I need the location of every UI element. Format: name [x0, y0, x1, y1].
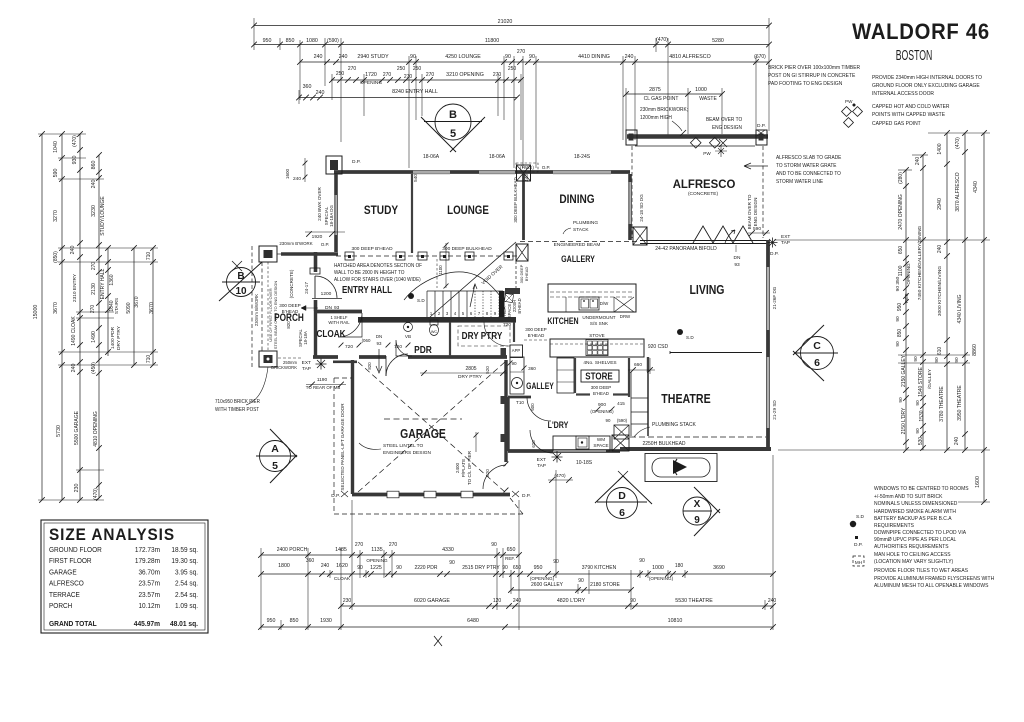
svg-text:ALLOW FOR STAIRS OVER (1040 WI: ALLOW FOR STAIRS OVER (1040 WIDE) — [334, 277, 421, 283]
svg-text:610: 610 — [937, 347, 943, 356]
svg-text:6020 GARAGE: 6020 GARAGE — [414, 598, 450, 604]
bottom extension lines — [260, 548, 262, 630]
svg-text:2470 OPENING: 2470 OPENING — [898, 194, 904, 230]
svg-text:WM: WM — [597, 437, 605, 442]
svg-text:4330: 4330 — [442, 547, 454, 553]
svg-text:850: 850 — [286, 38, 295, 44]
svg-text:240: 240 — [321, 563, 330, 569]
svg-text:270: 270 — [517, 49, 526, 55]
svg-text:(OPENING): (OPENING) — [530, 576, 555, 581]
svg-text:CL GAS POINT: CL GAS POINT — [644, 96, 679, 102]
svg-text:SIZE ANALYSIS: SIZE ANALYSIS — [49, 527, 175, 545]
svg-text:5280: 5280 — [712, 38, 724, 44]
svg-text:DINING: DINING — [559, 193, 594, 206]
svg-text:18-06A: 18-06A — [423, 154, 440, 160]
svg-text:1000: 1000 — [652, 565, 664, 571]
svg-text:D.P.: D.P. — [757, 123, 766, 129]
svg-text:6: 6 — [619, 507, 625, 519]
svg-text:950: 950 — [897, 303, 903, 312]
marker D6 — [607, 488, 638, 519]
garage top wall — [313, 355, 507, 359]
svg-text:D: D — [618, 490, 626, 502]
svg-text:STOVE: STOVE — [589, 333, 605, 338]
ldry wall west — [506, 397, 509, 451]
svg-text:21020: 21020 — [498, 19, 513, 25]
svg-text:WALDORF 46: WALDORF 46 — [852, 20, 990, 44]
svg-text:240: 240 — [91, 180, 97, 189]
svg-text:4340 LIVING: 4340 LIVING — [957, 294, 963, 323]
svg-text:90: 90 — [606, 418, 611, 423]
theatre west cabinet column — [647, 357, 649, 372]
svg-text:S.D: S.D — [417, 298, 425, 303]
svg-text:90: 90 — [529, 54, 535, 60]
svg-text:6: 6 — [814, 357, 820, 369]
svg-text:720: 720 — [503, 322, 511, 328]
svg-text:CLOAK: CLOAK — [334, 576, 351, 582]
smoke detector living — [677, 329, 683, 335]
svg-text:24-17: 24-17 — [304, 282, 309, 294]
kitchen island bench — [548, 284, 636, 312]
svg-text:ENGINEERS DESIGN: ENGINEERS DESIGN — [383, 450, 432, 456]
svg-text:240: 240 — [625, 54, 634, 60]
svg-text:11800: 11800 — [485, 38, 499, 44]
svg-text:DOWNPIPE CONNECTED TO LPOD VIA: DOWNPIPE CONNECTED TO LPOD VIA — [874, 530, 967, 536]
hall-garage door arc — [385, 356, 387, 376]
stairs — [426, 291, 428, 317]
svg-text:STUDY/LOUNGE: STUDY/LOUNGE — [100, 196, 106, 236]
svg-text:3670: 3670 — [149, 302, 155, 314]
svg-text:300 DEEP B'HEAD: 300 DEEP B'HEAD — [351, 246, 393, 252]
svg-text:240: 240 — [314, 54, 323, 60]
svg-text:ENTRY HALL: ENTRY HALL — [100, 268, 106, 299]
svg-text:TERRACE: TERRACE — [49, 592, 80, 599]
svg-text:18-18A DG: 18-18A DG — [329, 205, 334, 227]
svg-text:90: 90 — [511, 361, 517, 366]
svg-text:18.59 sq.: 18.59 sq. — [171, 547, 198, 554]
svg-text:90: 90 — [915, 400, 921, 406]
kitchen sink — [579, 297, 599, 310]
svg-text:LOUNGE: LOUNGE — [447, 204, 489, 217]
store cupboard crossed — [614, 425, 629, 439]
svg-text:D.P.: D.P. — [854, 542, 863, 548]
svg-text:240: 240 — [339, 54, 348, 60]
svg-text:590: 590 — [53, 169, 59, 178]
svg-text:2515 DRY PTRY: 2515 DRY PTRY — [462, 565, 500, 571]
svg-text:DN: DN — [376, 334, 382, 339]
svg-text:650: 650 — [513, 565, 522, 571]
svg-text:D/W: D/W — [600, 301, 609, 306]
svg-text:5730: 5730 — [56, 425, 62, 437]
svg-text:2180 STORE: 2180 STORE — [590, 582, 620, 588]
svg-text:820: 820 — [485, 469, 490, 477]
svg-text:T10: T10 — [516, 400, 524, 405]
svg-text:720: 720 — [394, 344, 402, 350]
svg-text:230mm B'WORK: 230mm B'WORK — [279, 241, 312, 246]
svg-text:8240 ENTRY HALL: 8240 ENTRY HALL — [392, 89, 438, 95]
theatre bulkhead dashed — [630, 436, 766, 438]
svg-text:WASTE: WASTE — [699, 96, 717, 102]
svg-text:ALUMINUM MESH TO ALL OPENABLE: ALUMINUM MESH TO ALL OPENABLE WINDOWS — [874, 583, 989, 589]
svg-text:3670: 3670 — [53, 302, 59, 314]
svg-text:TAP: TAP — [537, 463, 546, 469]
svg-text:415: 415 — [617, 401, 625, 406]
svg-text:360: 360 — [303, 84, 312, 90]
svg-text:850: 850 — [290, 618, 299, 624]
svg-text:(590): (590) — [617, 418, 628, 423]
svg-text:300 DEEP: 300 DEEP — [279, 303, 300, 308]
svg-text:BATTERY BACKUP AS PER B.C.A: BATTERY BACKUP AS PER B.C.A — [874, 516, 952, 522]
marker X9 — [683, 497, 711, 525]
svg-text:B'HEAD: B'HEAD — [517, 298, 522, 313]
svg-text:DRY PTRY: DRY PTRY — [462, 329, 503, 341]
svg-text:90: 90 — [895, 316, 901, 322]
svg-text:2875: 2875 — [649, 87, 661, 93]
alfresco pier east — [756, 130, 767, 145]
svg-text:3670: 3670 — [134, 296, 140, 307]
svg-text:710x950 BRICK PIER: 710x950 BRICK PIER — [215, 399, 260, 405]
pdr wall east — [449, 322, 451, 356]
wall porch return — [281, 252, 338, 256]
svg-text:SPACE: SPACE — [593, 443, 608, 448]
svg-text:2310 ENTRY: 2310 ENTRY — [72, 273, 78, 302]
garage rear door arc — [483, 465, 506, 489]
pier dash connect — [278, 357, 303, 359]
svg-text:1720: 1720 — [365, 72, 377, 78]
svg-text:3.95 sq.: 3.95 sq. — [175, 569, 198, 576]
svg-text:OPENING: OPENING — [906, 263, 911, 285]
svg-text:AUTHORITIES REQUIREMENTS: AUTHORITIES REQUIREMENTS — [874, 544, 949, 550]
svg-text:23.57m: 23.57m — [138, 592, 160, 599]
svg-text:3270: 3270 — [53, 210, 59, 222]
svg-text:240: 240 — [915, 157, 921, 166]
svg-text:950: 950 — [263, 38, 272, 44]
svg-text:VB: VB — [405, 334, 411, 339]
svg-text:5: 5 — [272, 460, 278, 472]
ext tap porch — [316, 359, 327, 370]
svg-text:STORM WATER LINE: STORM WATER LINE — [776, 179, 824, 185]
svg-text:920 CSD: 920 CSD — [648, 344, 669, 350]
svg-text:PORCH: PORCH — [49, 603, 72, 610]
svg-text:172.73m: 172.73m — [135, 547, 160, 554]
svg-text:90 350: 90 350 — [895, 276, 901, 291]
svg-text:3870 ALFRESCO: 3870 ALFRESCO — [955, 172, 961, 211]
svg-text:48.01 sq.: 48.01 sq. — [170, 621, 198, 628]
svg-text:240: 240 — [513, 598, 522, 604]
svg-text:TO STORM WATER GRATE: TO STORM WATER GRATE — [776, 163, 837, 169]
svg-text:1920: 1920 — [312, 234, 323, 240]
svg-text:1200: 1200 — [321, 291, 332, 297]
svg-text:1135: 1135 — [371, 547, 382, 553]
svg-text:B'HEAD: B'HEAD — [593, 391, 609, 396]
svg-text:5: 5 — [450, 128, 456, 140]
bhead dashed line lounge — [336, 255, 520, 257]
svg-text:36.70m: 36.70m — [138, 569, 160, 576]
svg-text:GROUND FLOOR: GROUND FLOOR — [49, 547, 102, 554]
svg-text:1360: 1360 — [109, 274, 115, 285]
svg-text:LIVING: LIVING — [690, 284, 725, 297]
pier top-left with DP — [326, 156, 342, 174]
svg-text:250: 250 — [397, 66, 406, 72]
plumbing box theatre — [612, 435, 629, 451]
svg-text:1490: 1490 — [91, 331, 97, 343]
smoke detector entry — [408, 293, 414, 299]
svg-text:REF.: REF. — [505, 556, 515, 561]
pier dining south-east — [633, 227, 647, 245]
galley south wall — [508, 396, 531, 399]
svg-text:CAPPED HOT AND COLD WATER: CAPPED HOT AND COLD WATER — [872, 104, 950, 110]
svg-text:1800: 1800 — [278, 563, 290, 569]
svg-text:PDR: PDR — [414, 344, 432, 356]
svg-text:90: 90 — [449, 560, 455, 566]
terrace seat below theatre — [645, 454, 717, 482]
svg-text:BRICKWORK: BRICKWORK — [271, 365, 297, 370]
svg-text:90mmØ UPVC PIPE AS PER LOCAL: 90mmØ UPVC PIPE AS PER LOCAL — [874, 537, 956, 543]
svg-text:2600 GALLEY: 2600 GALLEY — [531, 582, 564, 588]
svg-text:(060: (060 — [362, 338, 371, 343]
marker C6 — [801, 337, 834, 370]
store room — [574, 358, 576, 393]
stove — [586, 340, 608, 356]
svg-text:O.P.: O.P. — [542, 165, 551, 170]
wall gallery-living top / bifold — [640, 240, 768, 242]
svg-text:S/S SNK: S/S SNK — [590, 321, 609, 326]
alfresco top wall — [627, 134, 768, 138]
svg-text:3210 OPENING: 3210 OPENING — [446, 72, 484, 78]
svg-text:POINTS WITH CAPPED WASTE: POINTS WITH CAPPED WASTE — [872, 112, 946, 118]
svg-text:90: 90 — [505, 54, 511, 60]
svg-text:1225: 1225 — [370, 565, 382, 571]
svg-text:4810 OPENING: 4810 OPENING — [93, 411, 99, 447]
svg-text:(470): (470) — [955, 137, 961, 149]
svg-text:1200mm HIGH: 1200mm HIGH — [640, 115, 672, 121]
svg-text:(590): (590) — [327, 38, 339, 44]
svg-text:2940 STUDY: 2940 STUDY — [357, 54, 389, 60]
svg-text:860: 860 — [91, 161, 97, 170]
svg-text:720: 720 — [345, 344, 353, 350]
svg-text:180: 180 — [675, 563, 684, 569]
svg-text:250: 250 — [336, 71, 345, 77]
svg-text:240 BWK OVER: 240 BWK OVER — [317, 186, 322, 220]
svg-text:90: 90 — [915, 428, 921, 434]
symbol manhole legend — [853, 556, 864, 566]
svg-text:1080: 1080 — [306, 38, 318, 44]
svg-text:PW: PW — [703, 151, 711, 156]
svg-text:EXT: EXT — [537, 457, 546, 463]
svg-text:230mm BRICKWORK;: 230mm BRICKWORK; — [640, 107, 688, 113]
svg-text:PLUMBING: PLUMBING — [573, 220, 598, 226]
svg-text:D.P.: D.P. — [770, 251, 779, 257]
top extension lines — [253, 18, 255, 50]
svg-text:445.97m: 445.97m — [134, 621, 160, 628]
svg-text:1620: 1620 — [336, 563, 348, 569]
svg-text:GALLERY: GALLERY — [561, 253, 595, 264]
svg-text:3950 THEATRE: 3950 THEATRE — [957, 385, 963, 421]
svg-text:C: C — [813, 340, 821, 352]
svg-text:950: 950 — [267, 618, 276, 624]
svg-text:WITH RAIL: WITH RAIL — [328, 320, 350, 325]
svg-text:ALFRESCO SLAB TO GRADE: ALFRESCO SLAB TO GRADE — [776, 155, 842, 161]
wall top study-lounge-dining — [334, 170, 630, 174]
svg-text:STUDY: STUDY — [364, 204, 399, 217]
svg-text:ENG DESIGN: ENG DESIGN — [753, 198, 758, 227]
svg-text:270: 270 — [426, 72, 435, 78]
garage diagonal braces — [358, 362, 505, 492]
svg-text:2400 PORCH: 2400 PORCH — [277, 547, 308, 553]
wall dining east — [628, 174, 632, 240]
svg-text:PROVIDE 2340mm HIGH INTERNAL D: PROVIDE 2340mm HIGH INTERNAL DOORS TO — [872, 75, 982, 81]
svg-text:(CONCRETE): (CONCRETE) — [688, 191, 719, 197]
svg-text:6480: 6480 — [467, 618, 479, 624]
wall study-lounge divider — [411, 174, 413, 253]
garage bottom wall — [352, 493, 510, 497]
svg-text:STACK: STACK — [573, 227, 589, 233]
theatre bottom wall — [620, 447, 771, 451]
svg-text:BEAM OVER TO: BEAM OVER TO — [706, 117, 742, 123]
svg-text:ALFRESCO: ALFRESCO — [673, 178, 736, 191]
svg-text:90: 90 — [895, 341, 901, 347]
svg-text:18-18A: 18-18A — [303, 331, 308, 345]
svg-text:360: 360 — [528, 366, 536, 371]
svg-text:(450): (450) — [91, 362, 97, 374]
svg-text:1600: 1600 — [285, 168, 290, 179]
svg-text:2805: 2805 — [465, 366, 476, 372]
svg-text:AND TO BE CONNECTED TO: AND TO BE CONNECTED TO — [776, 171, 841, 177]
svg-text:15000: 15000 — [33, 305, 39, 320]
svg-text:(OPENING): (OPENING) — [590, 409, 614, 414]
svg-text:270: 270 — [493, 72, 502, 78]
svg-text:P/PLATE: P/PLATE — [461, 459, 466, 478]
svg-text:660: 660 — [634, 362, 642, 368]
svg-text:300 DEEP: 300 DEEP — [525, 327, 546, 332]
svg-text:270: 270 — [91, 262, 97, 271]
cloak west wall — [314, 311, 317, 358]
marker B10 — [227, 268, 256, 297]
stair arc 2000 line — [404, 272, 502, 300]
svg-text:650: 650 — [507, 547, 516, 553]
svg-text:B'HEAD: B'HEAD — [528, 333, 545, 338]
svg-text:4820 L'DRY: 4820 L'DRY — [557, 598, 586, 604]
symbol capped gas — [844, 118, 854, 128]
gallery dashed line — [520, 241, 640, 243]
svg-text:250: 250 — [508, 66, 517, 72]
svg-text:3230: 3230 — [91, 205, 97, 217]
svg-text:10: 10 — [235, 286, 247, 297]
svg-text:1400: 1400 — [937, 143, 943, 154]
porch pier top — [259, 246, 277, 262]
svg-text:270: 270 — [383, 72, 392, 78]
svg-text:D.P.: D.P. — [522, 493, 531, 499]
svg-text:1040: 1040 — [53, 141, 59, 153]
svg-text:DRY PTRY: DRY PTRY — [116, 325, 122, 350]
svg-text:(280): (280) — [898, 172, 904, 184]
svg-text:1.09 sq.: 1.09 sq. — [175, 603, 198, 610]
svg-text:179.28m: 179.28m — [135, 558, 160, 565]
svg-text:ENGINEERED BEAM: ENGINEERED BEAM — [554, 242, 601, 248]
svg-text:270: 270 — [348, 66, 357, 72]
svg-text:90: 90 — [954, 357, 960, 363]
svg-text:UNDERMOUNT: UNDERMOUNT — [582, 315, 615, 320]
svg-text:WINDOWS TO BE CENTRED TO ROOMS: WINDOWS TO BE CENTRED TO ROOMS — [874, 486, 969, 492]
svg-text:900: 900 — [598, 402, 606, 408]
svg-text:ENTRY HALL: ENTRY HALL — [342, 284, 392, 295]
svg-text:DRW: DRW — [620, 314, 631, 319]
svg-text:360: 360 — [306, 558, 315, 564]
svg-text:SELECTED PANEL-LIFT GARAGE DOO: SELECTED PANEL-LIFT GARAGE DOOR — [340, 403, 345, 491]
svg-text:9: 9 — [694, 515, 700, 526]
svg-text:BEAM OVER TO: BEAM OVER TO — [747, 194, 752, 229]
svg-text:PROVIDE FLOOR TILES TO WET ARE: PROVIDE FLOOR TILES TO WET AREAS — [874, 568, 969, 574]
wall lounge-dining divider — [522, 174, 525, 240]
svg-text:4340: 4340 — [973, 181, 979, 193]
ext tap laundry — [552, 452, 563, 463]
svg-text:24-18 SD DG: 24-18 SD DG — [639, 194, 644, 222]
svg-text:B'HEAD: B'HEAD — [282, 309, 299, 314]
svg-text:18-24S: 18-24S — [574, 154, 591, 160]
svg-text:240: 240 — [937, 245, 943, 254]
svg-text:REQUIREMENTS: REQUIREMENTS — [874, 523, 914, 529]
svg-text:820: 820 — [367, 362, 372, 370]
svg-text:230mm B/WORK: 230mm B/WORK — [254, 294, 259, 326]
dry pantry dashes — [458, 326, 510, 346]
svg-text:24-42 PANORAMA BIFOLD: 24-42 PANORAMA BIFOLD — [655, 246, 717, 252]
svg-text:90: 90 — [491, 542, 497, 548]
svg-text:(470): (470) — [93, 488, 99, 500]
svg-text:90: 90 — [913, 356, 919, 362]
svg-text:18-06A: 18-06A — [489, 154, 506, 160]
svg-text:PAD FOOTING TO ENG DESIGN: PAD FOOTING TO ENG DESIGN — [768, 81, 843, 87]
svg-text:ALFRESCO: ALFRESCO — [49, 580, 84, 587]
alfresco symbols — [690, 137, 701, 148]
svg-text:WITH TIMBER POST: WITH TIMBER POST — [215, 407, 259, 413]
svg-text:4250 LOUNGE: 4250 LOUNGE — [445, 54, 481, 60]
svg-text:APP: APP — [512, 348, 521, 353]
svg-text:270: 270 — [389, 542, 398, 548]
svg-text:93: 93 — [734, 262, 740, 268]
svg-text:REF.: REF. — [904, 293, 910, 303]
svg-text:710: 710 — [146, 355, 152, 364]
svg-text:240: 240 — [954, 437, 960, 446]
svg-text:2.54 sq.: 2.54 sq. — [175, 592, 198, 599]
laundry bottom wall — [508, 449, 620, 453]
svg-text:BRICK PIER OVER 100x100mm TIMB: BRICK PIER OVER 100x100mm TIMBER — [768, 65, 860, 71]
svg-text:2250H BULKHEAD: 2250H BULKHEAD — [642, 441, 685, 447]
cloak door arc — [338, 313, 362, 337]
svg-text:MAN HOLE TO CEILING ACCESS: MAN HOLE TO CEILING ACCESS — [874, 552, 951, 558]
svg-text:DRY PTRY: DRY PTRY — [458, 374, 483, 380]
svg-text:930: 930 — [72, 156, 78, 165]
svg-text:TO C/L OF PIER: TO C/L OF PIER — [467, 450, 472, 485]
stair hatched wall — [358, 317, 516, 323]
galley door arc — [527, 397, 551, 421]
marker A5 — [260, 441, 291, 472]
svg-text:4410 DINING: 4410 DINING — [578, 54, 610, 60]
right extension lines — [928, 132, 990, 134]
svg-text:PROVIDE ALUMINUM FRAMED FLYSCR: PROVIDE ALUMINUM FRAMED FLYSCREENS WITH — [874, 576, 994, 582]
svg-text:(850): (850) — [53, 251, 59, 263]
stove bench — [550, 339, 644, 357]
svg-text:EXT: EXT — [781, 234, 790, 240]
svg-text:2400: 2400 — [455, 462, 460, 473]
svg-text:270: 270 — [355, 542, 364, 548]
svg-text:1930: 1930 — [320, 618, 332, 624]
svg-text:X: X — [694, 499, 701, 510]
svg-text:2940: 2940 — [937, 198, 943, 210]
svg-text:300 DEEP BULKHEAD: 300 DEEP BULKHEAD — [513, 177, 518, 222]
svg-text:OPENING: OPENING — [366, 558, 388, 563]
svg-text:CLOAK: CLOAK — [316, 327, 345, 339]
svg-text:950: 950 — [534, 565, 543, 571]
svg-text:1530: 1530 — [919, 410, 925, 421]
